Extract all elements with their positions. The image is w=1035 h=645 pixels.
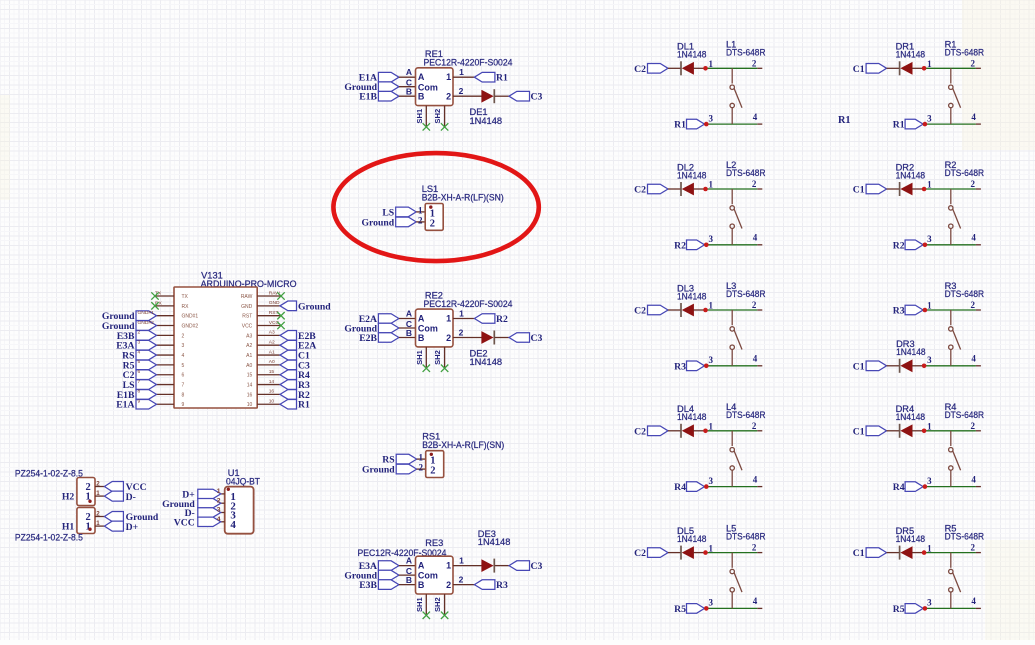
net flag R3 (pin 14) [280,380,297,390]
svg-text:A: A [418,72,425,82]
switch pin 3 [950,470,952,486]
connector body H1 [77,508,95,534]
encoder body RE3 [416,556,454,594]
switch lever [734,572,742,592]
junction [703,550,708,555]
svg-text:C3: C3 [531,92,543,103]
svg-text:A: A [406,67,412,77]
diode DL2 1N4148 [680,182,682,196]
svg-text:2: 2 [430,466,435,477]
svg-text:1N4148: 1N4148 [896,347,926,357]
wire pin 1 [95,495,104,497]
switch lever [953,330,961,350]
svg-text:R1: R1 [893,120,905,131]
svg-text:R1: R1 [496,73,508,84]
wire flag to diode [668,552,681,554]
switch lever [734,209,742,229]
switch pin 2 stub [976,67,981,69]
wire pin 2 to diode [453,337,483,339]
encoder body RE2 [416,309,454,347]
svg-text:1: 1 [459,67,464,77]
net wire pin1-pin2 [924,552,976,554]
svg-text:6: 6 [138,369,141,375]
wire pin 1 [221,493,225,495]
switch lever [953,572,961,592]
wire pin 2 [221,502,225,504]
net wire pin1-pin2 [706,309,758,311]
wire flag to diode [887,67,900,69]
junction bottom [704,484,709,489]
net flag D+ [104,521,123,531]
svg-text:1: 1 [446,314,451,324]
svg-text:1N4148: 1N4148 [470,116,503,126]
svg-text:1: 1 [927,301,932,311]
svg-text:DTS-648R: DTS-648R [726,532,766,542]
net flag E3A (pin 3) [136,340,157,350]
svg-text:E1A: E1A [116,400,134,411]
svg-text:2: 2 [752,300,757,310]
diode DR1 1N4148 [899,61,901,75]
no-connect SH1 [423,612,430,619]
wire pin 7 [157,384,175,386]
no-connect TX [151,292,158,299]
wire pin 3 [221,512,225,514]
svg-text:3: 3 [709,355,714,365]
svg-text:RAW: RAW [241,294,253,300]
svg-text:4: 4 [971,233,976,243]
svg-text:B: B [406,87,412,97]
svg-text:A1: A1 [269,349,275,355]
net wire pin3-pin4 [924,123,976,125]
wire pin 1 [453,318,474,320]
wire pin 4 [157,354,175,356]
svg-text:3: 3 [927,234,932,244]
wire pin B [399,337,416,339]
svg-text:PEC12R-4220F-S0024: PEC12R-4220F-S0024 [424,58,513,68]
svg-text:4: 4 [971,112,976,122]
wire pin 2 [416,221,425,223]
svg-text:9: 9 [182,402,185,408]
svg-text:B: B [418,92,425,102]
svg-text:A0: A0 [269,359,275,365]
net flag C3 [509,561,530,571]
pin RAW (no connect) [257,295,281,297]
switch lever [953,209,961,229]
connector body H2 [77,478,95,506]
svg-text:4: 4 [971,354,976,364]
net flag VCC [104,482,123,492]
net flag R1 [474,72,495,82]
wire diode to junction [912,552,924,554]
wire diode to junction [912,67,924,69]
svg-text:GND: GND [269,300,280,306]
svg-text:DTS-648R: DTS-648R [726,47,766,57]
svg-text:2: 2 [446,92,451,102]
net flag C2 (pin 6) [136,370,157,380]
svg-text:DTS-648R: DTS-648R [945,410,985,420]
svg-text:B: B [406,575,412,585]
svg-text:E3B: E3B [359,580,377,591]
net flag D- [198,508,221,517]
svg-text:4: 4 [138,349,141,355]
svg-text:DTS-648R: DTS-648R [945,289,985,299]
svg-text:R1: R1 [298,400,310,411]
wire diode to C3 [495,337,509,339]
net wire pin1-pin2 [924,188,976,190]
switch pin 3 [950,349,952,365]
svg-text:R5: R5 [674,604,686,615]
wire pin 2 [453,584,474,586]
svg-text:5: 5 [182,363,185,369]
wire pin 14 [257,384,280,386]
wire pin 2 [95,516,104,518]
diode DE2 1N4148 [493,331,495,345]
net wire pin1-pin2 [706,430,758,432]
svg-text:PZ254-1-02-Z-8.5: PZ254-1-02-Z-8.5 [15,469,83,479]
svg-text:3: 3 [927,598,932,608]
svg-text:4: 4 [217,516,221,523]
switch group L2 / diode DL2 [634,160,766,251]
svg-text:4: 4 [753,233,758,243]
junction [922,429,927,434]
wire pin 6 [157,374,175,376]
no-connect RX [151,302,158,309]
connector LS1 [362,184,504,230]
pin SH2 [444,106,446,127]
svg-text:RE3: RE3 [425,538,443,548]
origin dot [430,453,433,456]
svg-text:RX: RX [182,304,190,310]
switch group R4 / diode DR4 [853,402,985,493]
svg-text:B: B [418,333,425,343]
net wire pin1-pin2 [924,67,976,69]
svg-text:DTS-648R: DTS-648R [945,168,985,178]
pin RST (no connect) [257,315,281,317]
svg-text:2: 2 [419,463,424,473]
svg-text:1: 1 [419,453,424,463]
wire pin GND [257,305,280,307]
svg-text:2: 2 [182,333,185,339]
svg-text:A: A [406,556,412,566]
pin VCC (no connect) [257,325,281,327]
svg-text:E1B: E1B [359,92,377,103]
switch R2 [950,189,952,204]
wire pin B [399,584,416,586]
svg-text:2: 2 [217,497,221,504]
origin dot [227,488,230,491]
pin RX (no connect) [155,305,174,307]
origin dot [88,528,91,531]
pin TX (no connect) [155,295,174,297]
wire flag to diode [668,430,681,432]
svg-text:15: 15 [247,373,253,379]
svg-text:4: 4 [753,354,758,364]
diode DL5 1N4148 [680,546,682,560]
svg-text:04JQ-BT: 04JQ-BT [226,477,260,487]
svg-text:3: 3 [927,113,932,123]
wire diode to junction [693,188,705,190]
svg-text:A2: A2 [269,340,275,346]
no-connect VCC [277,322,284,329]
net wire pin3-pin4 [924,607,976,609]
net wire pin1-pin2 [706,552,758,554]
wire pin GND#1 [157,315,175,317]
diode DE1 1N4148 [493,89,495,103]
wire flag to diode [887,188,900,190]
svg-text:3: 3 [217,507,221,514]
switch pin 4 stub [757,244,762,246]
connector U1 04JQ-BT [162,468,260,534]
wire pin 2 [95,486,104,488]
svg-text:GND#1: GND#1 [182,314,199,320]
svg-text:2: 2 [752,58,757,68]
wire pin C [399,86,416,88]
svg-text:1: 1 [927,59,932,69]
svg-text:H2: H2 [62,492,75,503]
net flag R2 [474,314,495,324]
net flag R2 (pin 16) [280,390,297,400]
ic body V131 [174,287,257,408]
switch pin 2 stub [757,430,762,432]
net flag R5 (pin 5) [136,360,157,370]
svg-text:R4: R4 [893,482,905,493]
svg-text:A0: A0 [246,363,252,369]
annotation red ellipse around LS1 [333,153,538,261]
switch lever [953,451,961,471]
diode DL3 1N4148 [680,303,682,317]
svg-text:1: 1 [927,180,932,190]
origin dot [429,205,432,208]
wire flag to diode [668,309,681,311]
svg-text:9: 9 [138,399,141,405]
wire pin 1 [453,76,474,78]
svg-text:R2: R2 [893,240,905,251]
svg-text:1N4148: 1N4148 [470,357,503,367]
svg-text:A: A [418,561,425,571]
wire diode to junction [693,552,705,554]
svg-text:1: 1 [709,301,714,311]
svg-text:2: 2 [446,333,451,343]
switch pin 2 stub [976,188,981,190]
switch L1 [731,68,733,83]
svg-text:B: B [418,580,425,590]
svg-text:1: 1 [709,543,714,553]
svg-text:4: 4 [182,353,185,359]
net flag Ground [104,512,123,522]
wire pin 2 to diode [453,95,483,97]
svg-text:2: 2 [971,300,976,310]
rotary encoder RE3 [344,529,542,619]
switch group R2 / diode DR2 [853,160,985,251]
wire pin 8 [157,393,175,395]
junction bottom [923,484,928,489]
wire pin 9 [157,403,175,405]
wire pin A [399,318,416,320]
wire pin C [399,327,416,329]
svg-text:SH1: SH1 [415,349,424,365]
svg-text:C2: C2 [634,64,646,75]
diode DR4 1N4148 [899,424,901,438]
net flag Ground (pin GND#1) [136,311,157,321]
svg-text:SH2: SH2 [433,350,442,365]
svg-text:1: 1 [709,59,714,69]
junction top [923,308,928,313]
svg-text:VCC: VCC [174,517,195,528]
net flag C1 (pin A1) [280,350,297,360]
svg-text:10: 10 [269,399,275,405]
svg-text:PEC12R-4220F-S0024: PEC12R-4220F-S0024 [424,299,513,309]
wire pin 16 [257,393,280,395]
wire diode to junction [693,67,705,69]
net flag C3 (pin A0) [280,360,297,370]
svg-text:5: 5 [138,359,141,365]
svg-text:4: 4 [971,474,976,484]
net flag Ground [198,499,221,508]
svg-text:GND#1: GND#1 [138,310,155,316]
svg-text:R3: R3 [674,361,686,372]
switch lever [734,330,742,350]
svg-text:1: 1 [446,72,451,82]
svg-text:RST: RST [269,310,279,316]
net flag C3 [509,91,530,101]
svg-text:R3: R3 [496,580,508,591]
svg-text:C2: C2 [634,185,646,196]
net flag D+ [198,489,221,498]
switch lever [953,88,961,108]
diode DL1 1N4148 [680,61,682,75]
svg-text:1: 1 [446,561,451,571]
svg-text:C2: C2 [634,426,646,437]
switch pin 4 stub [976,365,981,367]
svg-text:16: 16 [269,389,275,395]
junction [703,66,708,71]
svg-text:Ground: Ground [362,217,395,228]
junction [922,66,927,71]
svg-text:2: 2 [971,421,976,431]
svg-text:3: 3 [182,343,185,349]
pin SH1 [425,106,427,127]
wire diode to junction [912,365,924,367]
no-connect RAW [277,292,284,299]
wire diode to junction [693,309,705,311]
svg-text:C3: C3 [531,561,543,572]
net wire pin1-pin2 [706,67,758,69]
switch pin 3 [731,349,733,365]
wire pin C [399,574,416,576]
wire pin 4 [221,521,225,523]
no-connect SH2 [441,365,448,372]
svg-text:R1: R1 [838,115,851,126]
switch R5 [950,553,952,568]
svg-text:A: A [406,309,412,319]
svg-text:DTS-648R: DTS-648R [945,47,985,57]
wire pin 1 to diode [453,565,483,567]
svg-text:2: 2 [459,86,464,96]
encoder body RE1 [416,68,454,106]
switch pin 4 stub [757,486,762,488]
net flag E1B (pin 8) [136,390,157,400]
switch pin 3 [731,470,733,486]
junction [922,364,927,369]
net flag D- [104,491,123,501]
switch pin 4 stub [976,607,981,609]
IC V131 ARDUINO-PRO-MICRO [102,270,331,410]
svg-text:4: 4 [753,596,758,606]
junction [922,187,927,192]
svg-text:1: 1 [96,490,100,497]
junction bottom [923,243,928,248]
net flag E1A (pin 9) [136,399,157,409]
pin SH2 [444,594,446,615]
svg-text:1N4148: 1N4148 [478,537,511,547]
switch pin 3 [731,108,733,124]
svg-text:PZ254-1-02-Z-8.5: PZ254-1-02-Z-8.5 [15,533,83,543]
net flag R4 (pin 15) [280,370,297,380]
no-connect SH2 [441,123,448,130]
wire pin A3 [257,334,280,336]
wire flag to diode [887,430,900,432]
net wire pin3-pin4 [706,607,758,609]
svg-text:6: 6 [182,373,185,379]
svg-text:1N4148: 1N4148 [677,50,707,60]
wire pin 3 [157,344,175,346]
net wire pin3-pin4 [706,123,758,125]
junction bottom [923,606,928,611]
svg-text:SH1: SH1 [415,596,424,612]
net flag RS (pin 4) [136,350,157,360]
wire pin A0 [257,364,280,366]
switch pin 2 stub [976,309,981,311]
junction bottom [704,122,709,127]
switch pin 2 stub [757,309,762,311]
pin SH2 [444,347,446,368]
switch group L5 / diode DL5 [634,524,766,615]
wire flag to diode [668,188,681,190]
net wire pin3-pin4 [706,486,758,488]
switch L2 [731,189,733,204]
svg-text:C1: C1 [853,426,865,437]
svg-text:1N4148: 1N4148 [677,291,707,301]
net flag C3 [509,333,530,343]
svg-text:D-: D- [126,492,136,503]
svg-text:2: 2 [459,327,464,337]
diode DR5 1N4148 [899,546,901,560]
svg-text:3: 3 [927,355,932,365]
switch pin 2 stub [976,430,981,432]
junction [703,429,708,434]
net flag R3 [474,580,495,590]
svg-text:Ground: Ground [298,301,331,312]
svg-text:1N4148: 1N4148 [896,412,926,422]
net wire pin3-pin4 [706,365,758,367]
net wire pin3-pin4 [706,244,758,246]
net wire pin3-pin4 [924,365,976,367]
svg-text:2: 2 [430,219,435,230]
net flag R1 (pin 10) [280,399,297,409]
svg-text:R2: R2 [674,240,686,251]
svg-text:E2B: E2B [359,333,377,344]
wire diode to junction [912,430,924,432]
switch pin 4 stub [757,365,762,367]
svg-text:2: 2 [971,179,976,189]
svg-text:1N4148: 1N4148 [677,412,707,422]
wire flag to diode [887,365,900,367]
svg-text:1: 1 [709,422,714,432]
switch lever [734,88,742,108]
net flag Ground (pin GND#2) [136,321,157,331]
switch lever [734,451,742,471]
switch group R5 / diode DR5 [853,524,985,615]
